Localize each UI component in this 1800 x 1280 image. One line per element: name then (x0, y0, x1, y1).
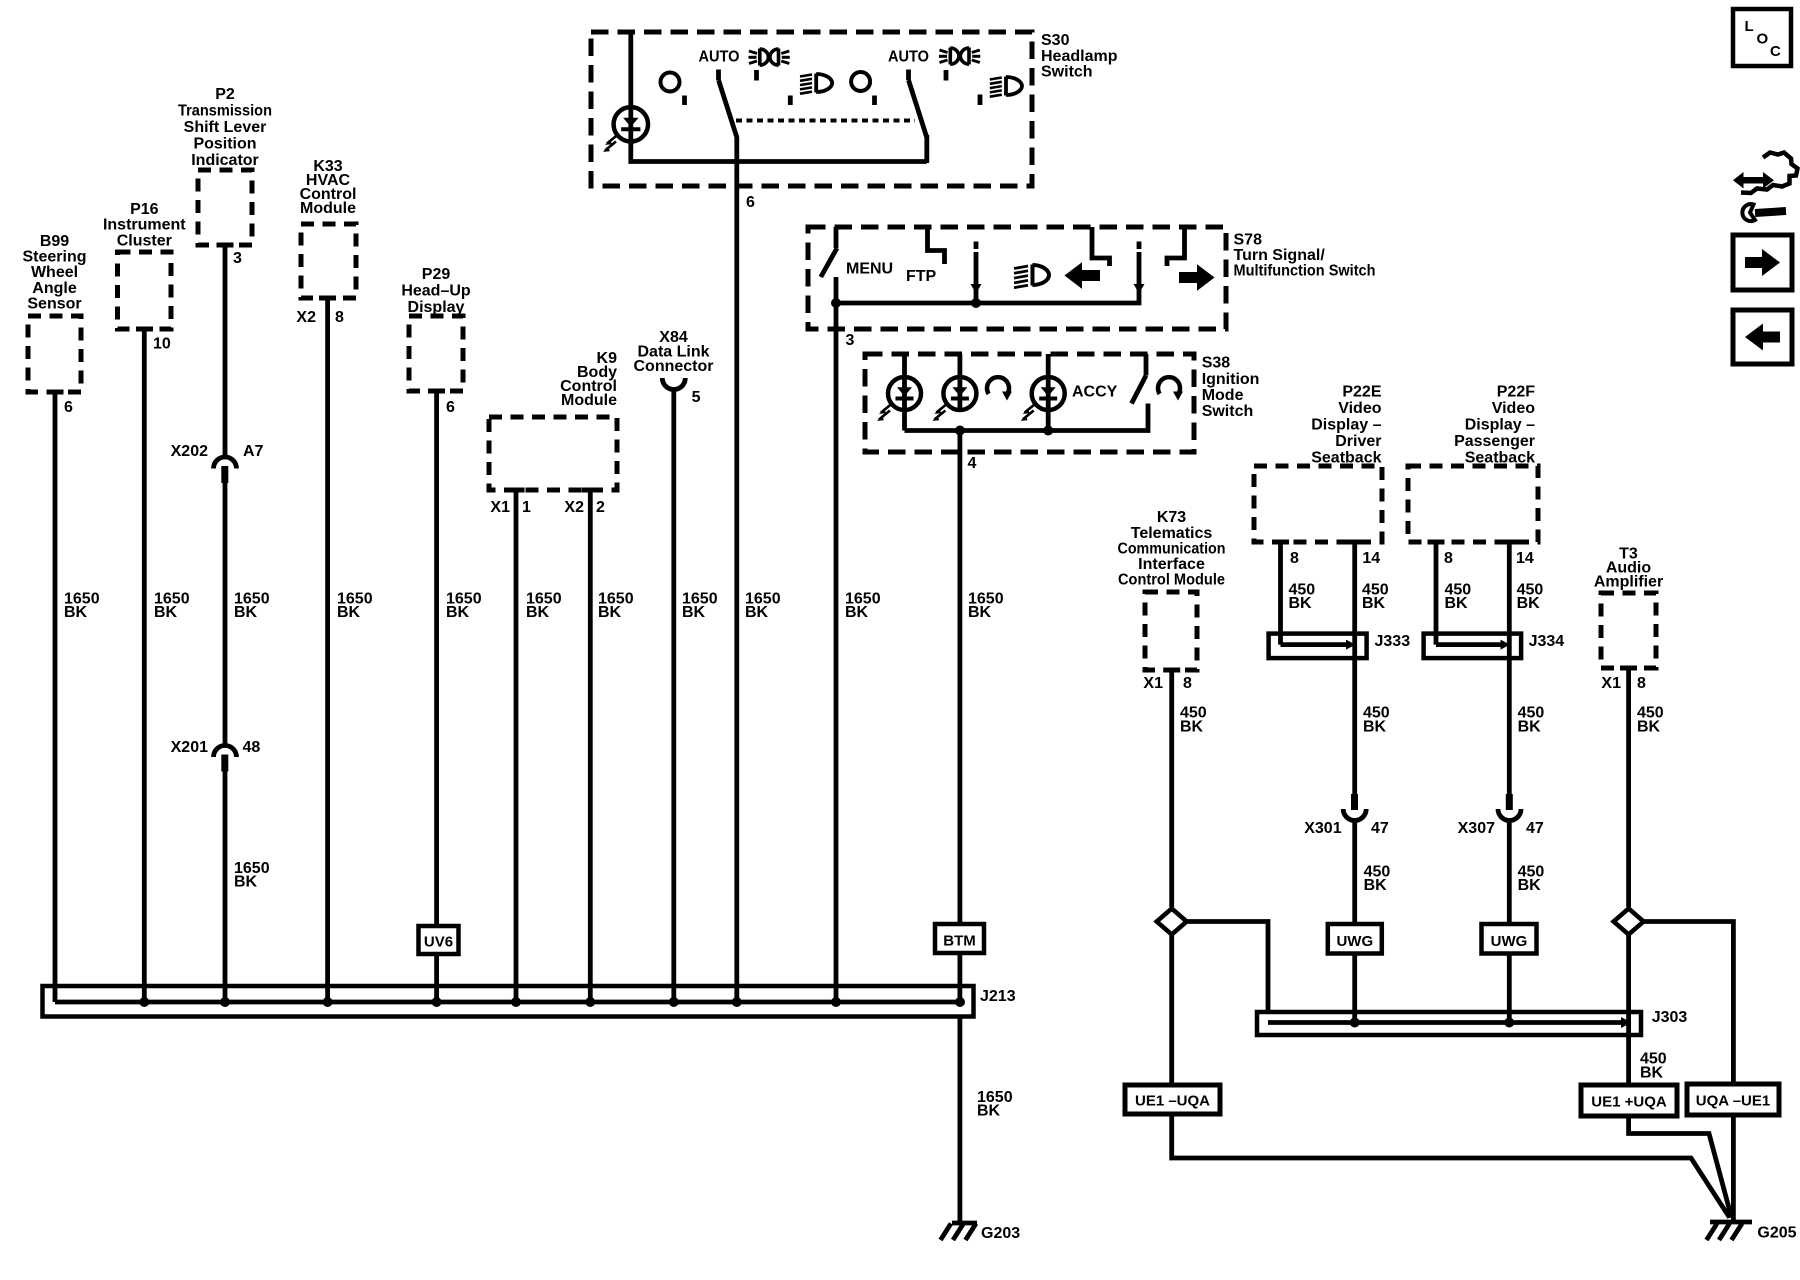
S78 switch lever at MENU (821, 227, 837, 277)
legend left-arrow box (1733, 310, 1792, 364)
S38 rotate symbol 2 (1158, 377, 1183, 400)
S78 junction dot at MENU wire (831, 298, 841, 308)
pin X1 1 of K9 (490, 499, 531, 516)
svg-text:BK: BK (745, 604, 769, 621)
svg-text:Amplifier: Amplifier (1594, 574, 1663, 591)
svg-text:Headlamp: Headlamp (1041, 48, 1118, 65)
svg-text:BK: BK (1363, 718, 1387, 735)
svg-text:BK: BK (1180, 718, 1204, 735)
module K33 HVAC Control Module (300, 158, 357, 298)
svg-text:S78: S78 (1234, 232, 1263, 249)
svg-text:Driver: Driver (1335, 433, 1381, 450)
svg-text:X201: X201 (171, 739, 208, 756)
wire from UWG 2 to J303 (1507, 954, 1512, 1023)
legend right-arrow box (1733, 235, 1792, 290)
S38 LED 3 (1021, 354, 1065, 431)
diamond splice near T3 (1614, 909, 1644, 935)
wire 450 BK from J333 to X301 (1355, 634, 1390, 795)
switch S38 Ignition Mode Switch box (865, 354, 1259, 452)
svg-text:MENU: MENU (846, 261, 893, 278)
wire 450 BK from P22E pin 14 through J333 (1355, 542, 1389, 634)
wire 1650 BK from P2 pin 3 to X202 (225, 245, 270, 621)
svg-text:Video: Video (1492, 400, 1536, 417)
S30 rotary switch lever 1 (719, 70, 737, 138)
svg-text:J334: J334 (1529, 633, 1565, 650)
J213 junction dots (139, 997, 965, 1007)
svg-text:Mode: Mode (1202, 387, 1244, 404)
wire 1650 BK from S38 pin 4 to BTM and J213 (960, 431, 1004, 1003)
svg-text:Head–Up: Head–Up (401, 283, 471, 300)
svg-text:Wheel: Wheel (31, 264, 78, 281)
wire 1650 BK from K9 X2-2 to J213 (590, 490, 633, 1002)
svg-text:10: 10 (153, 336, 171, 353)
S30 mechanical link dotted line (736, 119, 915, 123)
pin X1 8 of K73 (1143, 675, 1192, 692)
svg-text:BK: BK (1637, 718, 1661, 735)
svg-text:8: 8 (335, 309, 344, 326)
S78 left turn arrow (1065, 262, 1101, 289)
wire 1650 BK from S78 pin 3 to J213 (836, 277, 881, 1002)
svg-text:X202: X202 (171, 443, 208, 460)
wire 450 BK from T3 to diamond splice (1629, 668, 1664, 907)
option code UV6 box (419, 926, 459, 954)
pin X2 8 of K33 (296, 309, 344, 326)
S38 rotate symbol 1 (987, 377, 1012, 400)
module T3 Audio Amplifier (1594, 546, 1663, 669)
svg-text:Telematics: Telematics (1131, 525, 1213, 542)
wire 1650 BK from X84 pin 5 to J213 (674, 390, 718, 1003)
svg-text:C: C (1770, 43, 1781, 60)
svg-text:FTP: FTP (906, 268, 937, 285)
svg-text:AUTO: AUTO (888, 49, 929, 66)
svg-text:X1: X1 (490, 499, 510, 516)
svg-text:Shift Lever: Shift Lever (184, 119, 267, 136)
wire 450 BK from P22F pin 14 through J334 (1509, 542, 1543, 634)
S30 parking lamp icon (circle) group 2 (851, 72, 870, 91)
S38 bottom bus wire (905, 404, 1149, 431)
svg-text:Cluster: Cluster (117, 232, 172, 249)
S78 flash-to-pass low-beam icon (1014, 265, 1049, 288)
svg-text:X307: X307 (1458, 820, 1495, 837)
svg-text:K73: K73 (1157, 509, 1186, 526)
svg-text:UWG: UWG (1491, 933, 1528, 950)
svg-text:4: 4 (968, 455, 977, 472)
svg-text:47: 47 (1526, 820, 1544, 837)
wire 1650 BK from P29 through UV6 to J213 (437, 391, 482, 1002)
svg-text:X1: X1 (1601, 675, 1621, 692)
svg-text:Multifunction Switch: Multifunction Switch (1234, 263, 1376, 280)
svg-text:BK: BK (64, 604, 88, 621)
svg-text:BK: BK (526, 604, 550, 621)
ground G203 (941, 1223, 1021, 1242)
svg-text:G205: G205 (1757, 1225, 1796, 1242)
option code UE1 -UQA box (1125, 1085, 1220, 1114)
svg-text:BK: BK (1364, 877, 1388, 894)
wire 1650 BK from K33 to J213 (328, 298, 373, 1002)
connector X301 pin 47 (1304, 794, 1389, 837)
svg-text:Indicator: Indicator (191, 152, 259, 169)
svg-text:BK: BK (1362, 595, 1386, 612)
connector X201 pin 48 (171, 739, 261, 772)
wire 1650 BK from P16 pin 10 to J213 (144, 329, 189, 1002)
svg-text:B99: B99 (40, 233, 69, 250)
S38 junction dot LED2 (955, 426, 965, 436)
svg-text:A7: A7 (243, 443, 264, 460)
svg-text:Communication: Communication (1118, 540, 1226, 557)
switch S78 Turn Signal/Multifunction Switch box (808, 227, 1376, 329)
S30 low-beam icon 2 (990, 77, 1022, 97)
svg-text:Module: Module (300, 200, 356, 217)
wire from UE1 -UQA to G205 (1172, 1114, 1730, 1218)
option code BTM box (935, 924, 984, 953)
svg-text:3: 3 (846, 332, 855, 349)
svg-text:Module: Module (561, 392, 617, 409)
S78 right contact with down arrow (836, 242, 1145, 304)
S78 FTP contact (928, 227, 945, 264)
svg-text:P16: P16 (130, 201, 159, 218)
svg-text:Display –: Display – (1465, 417, 1535, 434)
svg-text:P22F: P22F (1497, 384, 1535, 401)
svg-text:Connector: Connector (634, 358, 714, 375)
svg-text:X301: X301 (1304, 820, 1341, 837)
svg-text:UE1 +UQA: UE1 +UQA (1591, 1094, 1667, 1111)
S78 mirrored contact before right arrow (1167, 227, 1185, 266)
LED indicator lamp in S30 (603, 107, 648, 152)
svg-text:BTM: BTM (943, 933, 976, 950)
svg-text:6: 6 (64, 399, 73, 416)
svg-text:Instrument: Instrument (103, 217, 186, 234)
option code UWG box 2 (1482, 924, 1537, 954)
svg-text:6: 6 (746, 194, 755, 211)
svg-text:BK: BK (598, 604, 622, 621)
wire from UWG 1 to J303 (1352, 954, 1357, 1023)
wire from LED down and right along S30 internal bus (631, 141, 927, 162)
svg-text:P22E: P22E (1342, 384, 1381, 401)
svg-text:X1: X1 (1143, 675, 1163, 692)
splice pack J303 (1257, 1012, 1641, 1035)
S30 headlamps-on icon 1 (749, 49, 790, 66)
svg-text:8: 8 (1183, 675, 1192, 692)
S30 contact tick left of low-beam icon 2 (978, 95, 983, 106)
svg-text:J333: J333 (1375, 633, 1411, 650)
S30 contact tick below circle 2 (872, 96, 877, 106)
svg-text:Angle: Angle (32, 280, 77, 297)
svg-text:O: O (1757, 31, 1769, 48)
S30 contact tick below headlamps icon 2 (944, 70, 949, 81)
connector X307 pin 47 (1458, 794, 1544, 837)
svg-text:BK: BK (1289, 595, 1313, 612)
wire 1650 BK from B99 pin 6 to J213 (55, 392, 100, 1002)
svg-text:Video: Video (1338, 400, 1382, 417)
S30 contact tick below circle 1 (682, 96, 687, 106)
svg-text:BK: BK (1640, 1064, 1664, 1081)
svg-text:47: 47 (1371, 820, 1389, 837)
ground G205 (1707, 1222, 1797, 1242)
wire 450 BK from J334 to X307 (1509, 634, 1544, 795)
svg-text:14: 14 (1362, 550, 1380, 567)
option code UQA -UE1 box (1687, 1084, 1779, 1115)
wire from diamond right to UQA-UE1 (1644, 922, 1734, 1085)
S30 headlamps-on icon 2 (939, 48, 980, 65)
svg-text:UWG: UWG (1336, 933, 1373, 950)
svg-text:BK: BK (1518, 877, 1542, 894)
svg-text:Display: Display (408, 299, 465, 316)
svg-text:BK: BK (682, 604, 706, 621)
legend data-link/diagnostic icon (1733, 153, 1798, 222)
svg-text:J213: J213 (980, 988, 1016, 1005)
pin X1 8 of T3 (1601, 675, 1646, 692)
svg-text:J303: J303 (1652, 1009, 1688, 1026)
svg-text:Position: Position (193, 136, 256, 153)
svg-text:5: 5 (692, 389, 701, 406)
wire 450 BK from K73 to diamond splice (1172, 670, 1207, 907)
wire 450 BK from J303 to UE1+UQA (1640, 1051, 1667, 1082)
svg-text:48: 48 (243, 739, 261, 756)
S38 junction dot LED3 (1043, 426, 1053, 436)
svg-text:3: 3 (233, 250, 242, 267)
splice pack J213 (43, 986, 974, 1017)
option code UWG box 1 (1328, 924, 1382, 954)
wire 1650 BK from X201 to J213 (225, 772, 270, 1003)
svg-text:Sensor: Sensor (27, 296, 81, 313)
J303 junction dot UWG1 (1350, 1018, 1360, 1028)
wire from diamond right to J303 (1187, 922, 1268, 1013)
svg-text:G203: G203 (981, 1225, 1020, 1242)
S30 low-beam icon 1 (800, 74, 832, 94)
wire from UE1 +UQA to G205 (1629, 1116, 1732, 1218)
svg-text:6: 6 (446, 399, 455, 416)
wire 450 BK from X301 to UWG (1355, 818, 1391, 926)
connector B99 Steering Wheel Angle Sensor (22, 233, 86, 392)
svg-text:BK: BK (845, 604, 869, 621)
J303 junction dot UWG2 (1504, 1018, 1514, 1028)
svg-text:8: 8 (1637, 675, 1646, 692)
wire 1650 BK from S30 pin 6 to J213 (737, 137, 781, 1002)
wire from diamond bottom through J303 to UE1+UQA (1626, 935, 1631, 1086)
svg-text:8: 8 (1444, 550, 1453, 567)
connector X84 Data Link Connector (634, 329, 714, 390)
connector P2 Transmission Shift Lever Position Indicator (178, 86, 272, 245)
wire from UQA -UE1 to G205 (1731, 1115, 1736, 1222)
svg-text:BK: BK (234, 874, 258, 891)
switch S30 Headlamp Switch box (591, 32, 1118, 186)
svg-text:2: 2 (596, 499, 605, 516)
svg-text:S30: S30 (1041, 32, 1070, 49)
svg-text:Display –: Display – (1311, 417, 1381, 434)
option code UE1 +UQA box (1581, 1085, 1677, 1116)
wire 1650 BK from J213 to G203 (960, 1017, 1013, 1224)
svg-text:BK: BK (1517, 595, 1541, 612)
svg-text:S38: S38 (1202, 355, 1231, 372)
svg-text:BK: BK (154, 604, 178, 621)
S30 parking lamp icon (circle) group 1 (661, 73, 680, 92)
svg-text:BK: BK (968, 604, 992, 621)
svg-text:Control Module: Control Module (1118, 572, 1225, 589)
legend LOC box (1733, 9, 1791, 66)
svg-text:Passenger: Passenger (1454, 433, 1535, 450)
svg-text:BK: BK (337, 604, 361, 621)
svg-text:Interface: Interface (1138, 556, 1205, 573)
pin X2 2 of K9 (564, 499, 605, 516)
module P22F Video Display - Passenger Seatback (1408, 384, 1538, 542)
svg-text:Turn Signal/: Turn Signal/ (1234, 247, 1326, 264)
wire from diamond bottom to UE1-UQA (1169, 935, 1174, 1086)
svg-text:BK: BK (1445, 595, 1469, 612)
svg-text:L: L (1745, 18, 1754, 35)
splice pack J334 (1424, 634, 1522, 659)
S78 center contact with down arrow (971, 242, 982, 309)
module P22E Video Display - Driver Seatback (1254, 384, 1382, 542)
wire 450 BK from P22E pin 8 to J333 (1281, 542, 1316, 645)
S30 contact tick below headlamps icon 1 (754, 70, 759, 81)
module K9 Body Control Module (489, 350, 617, 490)
wire 1650 BK from K9 X1-1 to J213 (516, 490, 562, 1002)
svg-text:1: 1 (522, 499, 531, 516)
connector P16 Instrument Cluster (103, 201, 186, 329)
svg-text:BK: BK (446, 604, 470, 621)
S30 contact tick left of low-beam icon 1 (788, 96, 793, 106)
S38 switch lever (1132, 354, 1147, 404)
svg-text:Switch: Switch (1202, 403, 1254, 420)
svg-text:P2: P2 (215, 86, 235, 103)
S38 LED 1 (877, 354, 921, 431)
svg-text:BK: BK (1518, 718, 1542, 735)
svg-text:Transmission: Transmission (178, 103, 272, 120)
svg-text:Ignition: Ignition (1202, 371, 1260, 388)
svg-text:BK: BK (234, 604, 258, 621)
svg-text:Steering: Steering (22, 249, 86, 266)
S30 rotary switch lever 2 (909, 70, 927, 164)
svg-text:X2: X2 (564, 499, 584, 516)
svg-text:AUTO: AUTO (699, 49, 740, 66)
S78 contact before left arrow (1092, 227, 1110, 266)
splice pack J333 (1269, 634, 1367, 659)
svg-text:Switch: Switch (1041, 64, 1093, 81)
diamond splice near K73 (1157, 909, 1187, 935)
svg-text:14: 14 (1516, 550, 1534, 567)
S78 right turn arrow (1179, 264, 1215, 291)
svg-text:UE1 –UQA: UE1 –UQA (1135, 1093, 1210, 1110)
connector X202 pin A7 (171, 443, 264, 483)
svg-text:P29: P29 (422, 266, 451, 283)
wire 450 BK from P22F pin 8 to J334 (1436, 542, 1471, 645)
module K73 Telematics Communication Interface Control Module (1118, 509, 1226, 670)
module P29 Head-Up Display (401, 266, 471, 391)
wire from S30 box top to LED (628, 32, 633, 108)
svg-text:8: 8 (1290, 550, 1299, 567)
svg-text:ACCY: ACCY (1072, 384, 1118, 401)
svg-text:BK: BK (977, 1103, 1001, 1120)
wire from X202 to X201 (223, 483, 228, 745)
S38 LED 2 (932, 354, 976, 421)
svg-text:UQA –UE1: UQA –UE1 (1696, 1093, 1770, 1110)
svg-text:UV6: UV6 (424, 934, 453, 951)
svg-text:X2: X2 (296, 309, 316, 326)
wire 450 BK from X307 to UWG (1509, 818, 1544, 926)
